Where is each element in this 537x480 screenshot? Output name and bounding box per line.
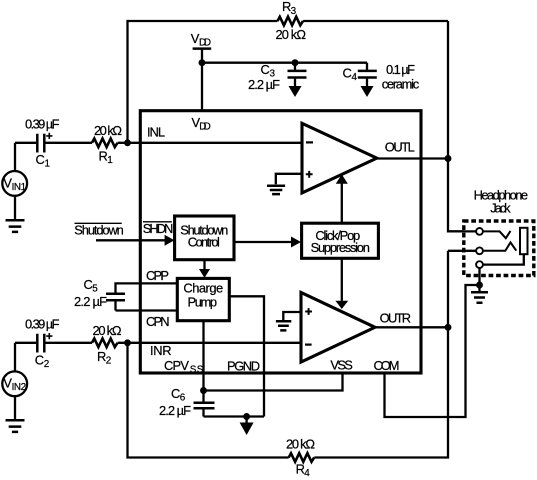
svg-text:INR: INR: [150, 343, 172, 358]
svg-text:DD: DD: [199, 121, 211, 132]
capacitor C5 with CPP/CPN wires: [116, 283, 178, 292]
wire: C6 bottom to PGND: [204, 415, 265, 417]
capacitor C6: [202, 391, 204, 403]
wire R1 to op-amp INL: [118, 142, 302, 144]
svg-text:CPP: CPP: [146, 268, 169, 283]
svg-text:C: C: [35, 352, 44, 367]
svg-text:Pump: Pump: [188, 295, 218, 310]
svg-text:Control: Control: [188, 235, 220, 250]
svg-text:3: 3: [291, 6, 297, 17]
svg-text:ceramic: ceramic: [382, 76, 420, 91]
capacitor C1: [15, 142, 36, 144]
svg-text:COM: COM: [374, 358, 400, 373]
svg-text:1: 1: [45, 159, 51, 170]
headphone jack dashed box: [464, 221, 534, 276]
wire: sleeve to ground: [478, 268, 480, 285]
capacitor C3: [292, 59, 299, 66]
svg-text:4: 4: [352, 72, 358, 83]
jack ring contact: [483, 242, 517, 250]
wire op-amp R + input to ground: [283, 312, 301, 320]
svg-text:Jack: Jack: [490, 201, 511, 216]
svg-text:0.39 µF: 0.39 µF: [25, 116, 60, 131]
wire R2 to op-amp INR: [118, 342, 301, 344]
svg-text:4: 4: [304, 468, 310, 479]
svg-text:0.1 µF: 0.1 µF: [386, 62, 415, 77]
svg-text:2.2 µF: 2.2 µF: [248, 77, 280, 92]
wire: COM pin to jack ground: [385, 285, 477, 417]
jack sleeve wire: [483, 254, 524, 264]
svg-text:SS: SS: [190, 364, 204, 375]
node INL: [124, 139, 131, 146]
svg-text:Charge: Charge: [183, 281, 223, 296]
jack tip contact: [483, 231, 511, 238]
svg-text:OUTR: OUTR: [380, 310, 412, 325]
internal wire: charge pump to PGND: [229, 296, 264, 416]
svg-text:1: 1: [107, 155, 113, 166]
svg-text:20 kΩ: 20 kΩ: [286, 436, 315, 451]
node OUTR: [445, 324, 452, 331]
svg-text:20 kΩ: 20 kΩ: [93, 323, 122, 338]
svg-text:5: 5: [92, 284, 98, 295]
block: Click/Pop Suppression: [302, 223, 379, 258]
node CPVSS/C6: [200, 387, 207, 394]
wire: VDD rail to bypass caps: [202, 62, 367, 64]
jack plug body: [520, 228, 528, 254]
wire C1 to R1: [46, 142, 93, 144]
wire: R4 feedback: jack ring down to INR: [314, 251, 448, 458]
arrow Shutdown Control to Click/Pop: [234, 241, 292, 243]
IC body U1: [140, 111, 421, 373]
source VIN2: [2, 371, 27, 396]
svg-text:OUTL: OUTL: [385, 140, 415, 155]
wire: R3 right to OUTL column: [303, 20, 448, 22]
node PGND/gnd: [243, 413, 250, 420]
resistor R4: [289, 453, 315, 462]
svg-text:2.2 µF: 2.2 µF: [74, 294, 107, 309]
capacitor C2: [15, 342, 36, 344]
arrow Click/Pop to op-amp R: [341, 258, 343, 301]
ground (op-amp L): [267, 186, 285, 194]
arrow Shutdown Control to Charge Pump: [203, 260, 205, 270]
wire C2 to R2: [46, 342, 93, 344]
ground (jack): [471, 292, 488, 302]
svg-text:20 kΩ: 20 kΩ: [276, 27, 307, 42]
wire OUTL: [377, 157, 448, 159]
block: Shutdown Control: [175, 216, 234, 260]
VDD supply symbol: [193, 47, 212, 50]
wire: VSS pin to CPVSS node: [204, 373, 343, 391]
block: Charge Pump: [177, 278, 229, 320]
ground (op-amp R): [276, 321, 291, 330]
node OUTL: [445, 155, 452, 162]
svg-text:2: 2: [44, 359, 50, 370]
svg-text:PGND: PGND: [227, 358, 260, 373]
internal wire: charge pump to CPVSS: [202, 321, 204, 391]
svg-text:Shutdown: Shutdown: [74, 222, 124, 237]
ground (VIN2): [6, 420, 25, 432]
svg-text:CPN: CPN: [146, 314, 170, 329]
jack terminal circles: [476, 228, 483, 235]
svg-text:IN1: IN1: [12, 182, 27, 193]
svg-text:DD: DD: [199, 38, 211, 49]
svg-text:2: 2: [106, 356, 112, 367]
ground (VIN1): [6, 220, 25, 232]
resistor R1: [92, 139, 117, 148]
resistor R2: [92, 339, 117, 348]
node jack ground: [476, 282, 483, 289]
Shutdown input label with overline: [75, 222, 122, 224]
wire OUTR: [375, 326, 448, 328]
svg-text:0.39 µF: 0.39 µF: [25, 316, 60, 331]
source VIN1: [2, 171, 27, 196]
wire op-amp L + input to ground: [276, 174, 302, 185]
node: VDD/C3 junction: [199, 59, 206, 66]
svg-text:2.2 µF: 2.2 µF: [159, 403, 191, 418]
wire: jack tip lead: [448, 230, 476, 232]
svg-text:IN2: IN2: [12, 382, 27, 393]
op-amp U1B (right channel): [301, 293, 375, 363]
pin label SHDN with overline: [143, 221, 172, 223]
node INR: [124, 339, 131, 346]
wire shutdown input: [96, 239, 166, 241]
wire: top feedback rail from INL node up and across: [128, 21, 278, 143]
svg-text:C: C: [261, 62, 270, 77]
svg-text:20 kΩ: 20 kΩ: [94, 123, 122, 138]
ground arrow (PGND): [245, 417, 247, 423]
op-amp U1A (left channel): [302, 123, 377, 193]
wire: OUTL column down to jack tip: [448, 21, 476, 231]
svg-text:VSS: VSS: [330, 358, 353, 373]
svg-text:Suppression: Suppression: [311, 240, 370, 255]
arrow Click/Pop to op-amp L: [341, 184, 343, 224]
capacitor C4: [366, 63, 368, 70]
wire: jack ring lead: [448, 250, 476, 252]
svg-text:INL: INL: [147, 125, 165, 140]
svg-text:C: C: [36, 152, 45, 167]
svg-text:CPV: CPV: [164, 358, 189, 373]
svg-text:SHDN: SHDN: [143, 221, 174, 236]
svg-text:C: C: [343, 65, 352, 80]
resistor R3: [278, 17, 304, 26]
